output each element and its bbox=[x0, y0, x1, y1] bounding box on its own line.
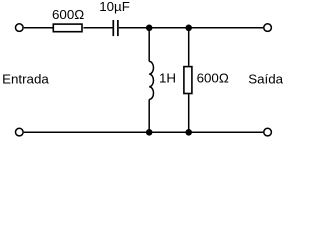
wire C1 to output terminal bbox=[119, 27, 263, 29]
wire R2 to bottom rail bbox=[188, 94, 190, 132]
svg-text:Saída: Saída bbox=[248, 72, 283, 87]
resistor R2 600ohm shunt bbox=[184, 67, 192, 94]
terminal input top bbox=[15, 24, 23, 32]
svg-text:600Ω: 600Ω bbox=[197, 71, 229, 86]
wire node A down to inductor bbox=[148, 28, 150, 62]
capacitor C1 10uF bbox=[113, 20, 118, 36]
resistor R1 600ohm series bbox=[53, 24, 82, 32]
inductor L1 1H bbox=[149, 61, 153, 99]
svg-text:1H: 1H bbox=[159, 70, 176, 85]
wire R1 to C1 bbox=[83, 27, 112, 29]
terminal output top bbox=[264, 24, 272, 32]
terminal output bottom bbox=[264, 128, 272, 136]
wire bottom rail bbox=[24, 131, 263, 133]
svg-text:Entrada: Entrada bbox=[2, 72, 49, 87]
node A junction dot top of inductor bbox=[146, 25, 153, 32]
svg-text:10µF: 10µF bbox=[99, 0, 130, 14]
node D junction dot bottom of shunt resistor bbox=[185, 129, 192, 136]
wire inductor to bottom rail bbox=[148, 99, 150, 132]
terminal input bottom bbox=[15, 128, 23, 136]
node B junction dot top of shunt resistor bbox=[185, 25, 192, 32]
wire node B down to resistor R2 bbox=[188, 28, 190, 66]
node C junction dot bottom of inductor bbox=[146, 129, 153, 136]
svg-text:600Ω: 600Ω bbox=[52, 7, 84, 22]
wire top-left bbox=[24, 27, 53, 29]
